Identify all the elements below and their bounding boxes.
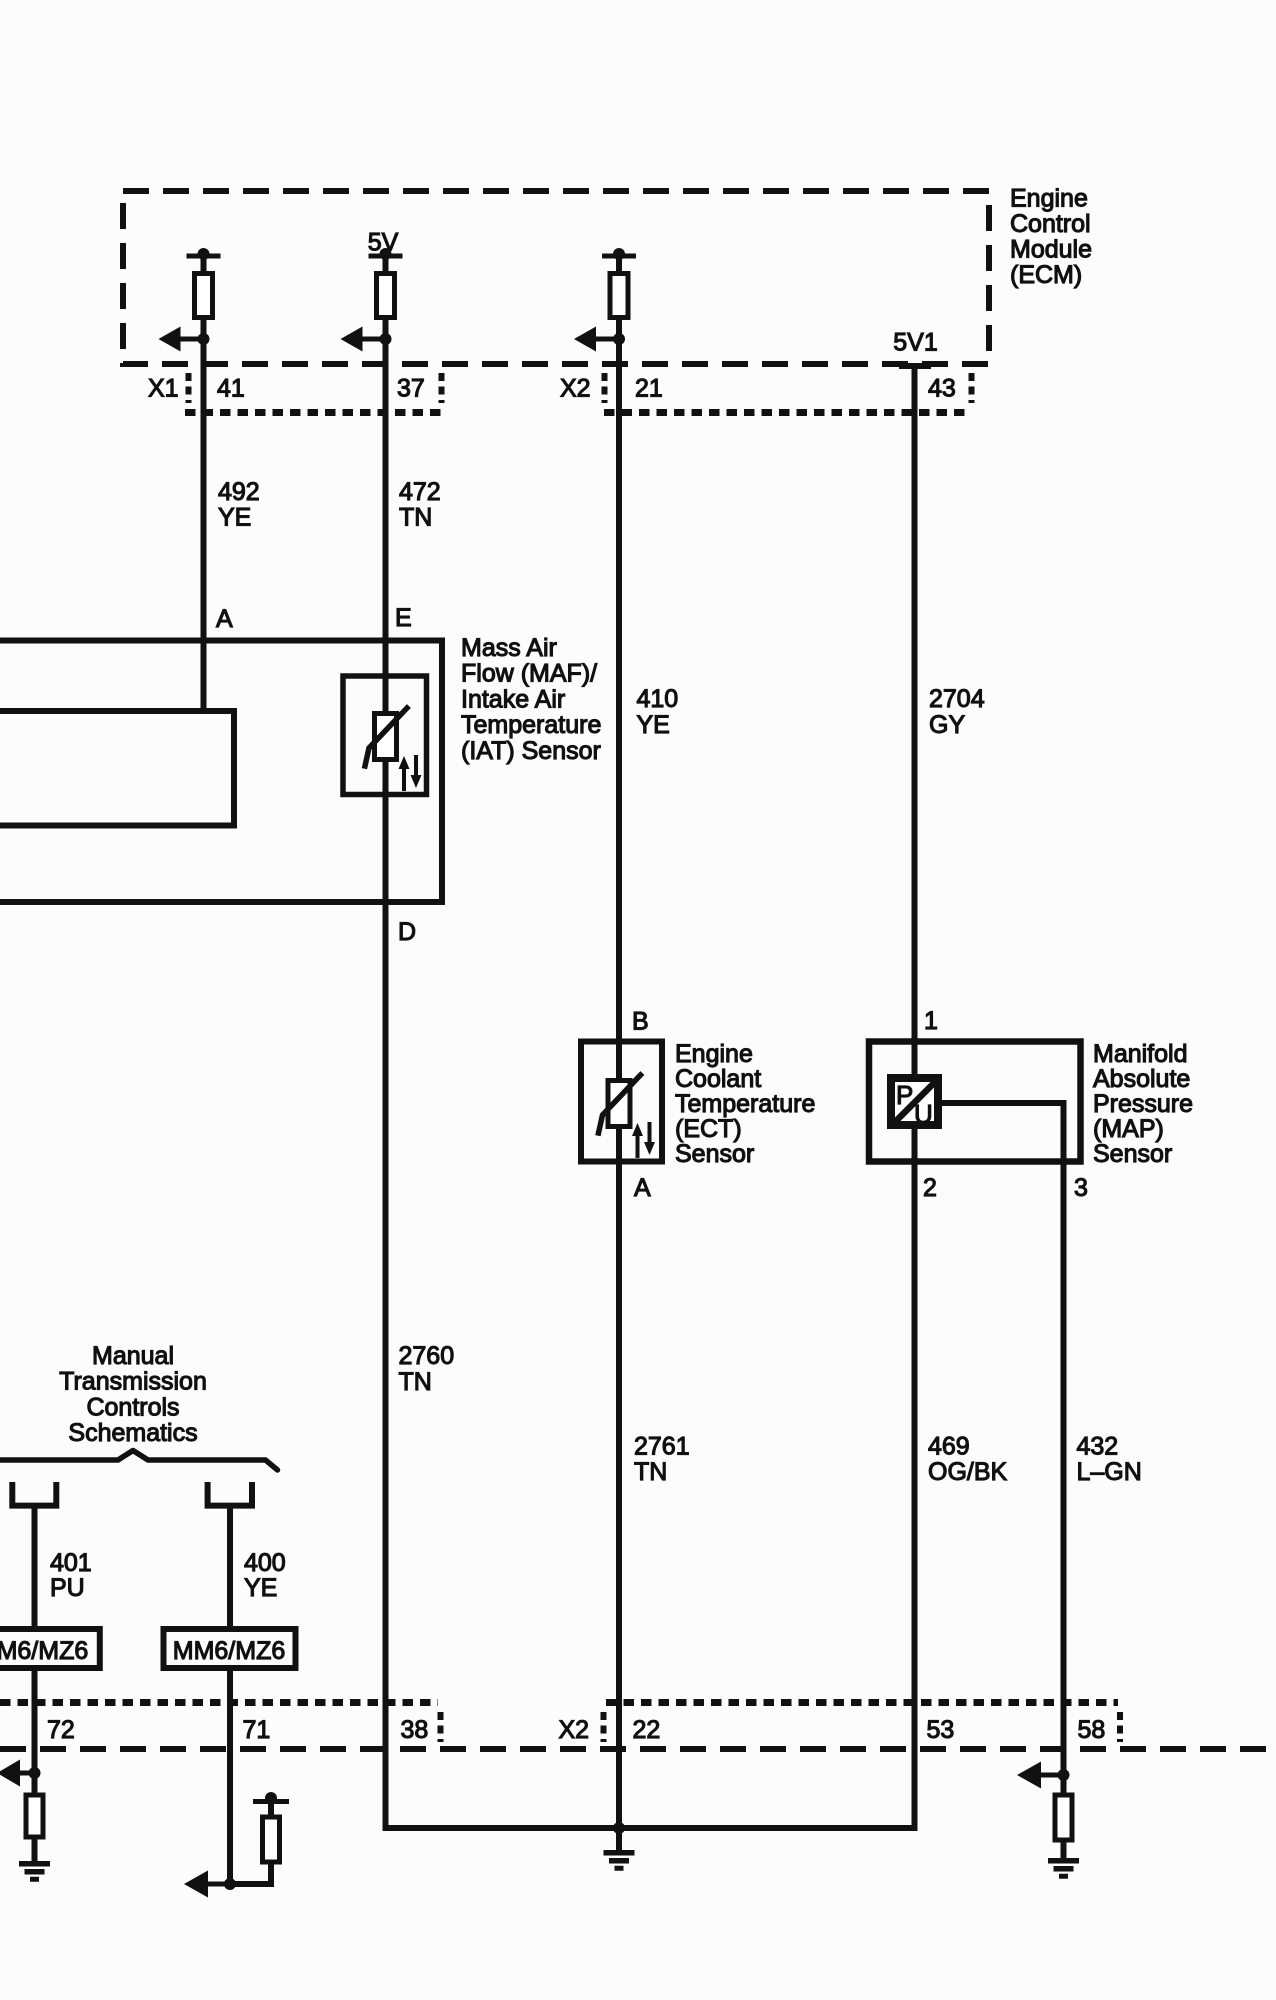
svg-text:P: P xyxy=(896,1080,913,1110)
svg-text:U: U xyxy=(914,1099,933,1129)
svg-text:41: 41 xyxy=(217,375,245,403)
svg-text:43: 43 xyxy=(928,375,956,403)
svg-text:21: 21 xyxy=(635,375,663,403)
svg-text:YE: YE xyxy=(637,711,670,739)
svg-text:5V: 5V xyxy=(368,229,399,257)
svg-text:Temperature: Temperature xyxy=(461,711,601,739)
svg-text:Sensor: Sensor xyxy=(675,1140,754,1168)
svg-text:Engine: Engine xyxy=(1010,185,1088,213)
svg-text:A: A xyxy=(634,1174,651,1202)
svg-text:YE: YE xyxy=(244,1574,277,1602)
svg-text:E: E xyxy=(395,604,412,632)
svg-text:Intake Air: Intake Air xyxy=(461,685,565,713)
svg-text:MM6/MZ6: MM6/MZ6 xyxy=(173,1637,286,1665)
svg-text:(MAP): (MAP) xyxy=(1093,1115,1164,1143)
svg-text:Manifold: Manifold xyxy=(1093,1040,1188,1068)
svg-text:Schematics: Schematics xyxy=(68,1419,197,1447)
svg-text:GY: GY xyxy=(929,711,965,739)
svg-text:YE: YE xyxy=(218,504,251,532)
svg-text:Controls: Controls xyxy=(86,1393,179,1421)
svg-text:2760: 2760 xyxy=(399,1342,455,1370)
svg-text:X2: X2 xyxy=(559,1716,590,1744)
svg-text:Absolute: Absolute xyxy=(1093,1065,1190,1093)
svg-text:TN: TN xyxy=(399,504,432,532)
svg-text:TN: TN xyxy=(399,1368,432,1396)
svg-text:L–GN: L–GN xyxy=(1077,1458,1142,1486)
svg-text:432: 432 xyxy=(1077,1433,1119,1461)
svg-text:D: D xyxy=(398,918,416,946)
svg-text:472: 472 xyxy=(399,478,441,506)
svg-text:TN: TN xyxy=(634,1458,667,1486)
svg-text:2761: 2761 xyxy=(634,1433,690,1461)
svg-text:(IAT) Sensor: (IAT) Sensor xyxy=(461,737,601,765)
svg-text:Manual: Manual xyxy=(92,1342,174,1370)
svg-text:2: 2 xyxy=(923,1174,937,1202)
svg-text:401: 401 xyxy=(50,1549,92,1577)
svg-text:MM6/MZ6: MM6/MZ6 xyxy=(0,1637,88,1665)
svg-text:Transmission: Transmission xyxy=(59,1368,207,1396)
svg-text:58: 58 xyxy=(1078,1716,1106,1744)
svg-text:400: 400 xyxy=(244,1549,286,1577)
svg-text:B: B xyxy=(632,1008,649,1036)
svg-text:1: 1 xyxy=(924,1007,938,1035)
svg-text:OG/BK: OG/BK xyxy=(928,1458,1008,1486)
svg-text:Coolant: Coolant xyxy=(675,1065,761,1093)
svg-text:71: 71 xyxy=(243,1716,271,1744)
svg-text:Pressure: Pressure xyxy=(1093,1090,1193,1118)
svg-text:Control: Control xyxy=(1010,210,1091,238)
svg-text:Module: Module xyxy=(1010,236,1092,264)
svg-text:72: 72 xyxy=(47,1716,75,1744)
svg-text:(ECM): (ECM) xyxy=(1010,261,1082,289)
svg-text:X2: X2 xyxy=(560,375,591,403)
svg-text:Flow (MAF)/: Flow (MAF)/ xyxy=(461,660,597,688)
svg-text:(ECT): (ECT) xyxy=(675,1115,742,1143)
svg-text:A: A xyxy=(216,605,233,633)
svg-text:Sensor: Sensor xyxy=(1093,1140,1172,1168)
svg-text:2704: 2704 xyxy=(929,685,985,713)
svg-text:410: 410 xyxy=(637,685,679,713)
svg-text:38: 38 xyxy=(401,1716,429,1744)
svg-text:3: 3 xyxy=(1074,1174,1088,1202)
svg-text:37: 37 xyxy=(397,375,425,403)
svg-text:Mass Air: Mass Air xyxy=(461,634,557,662)
svg-text:Engine: Engine xyxy=(675,1040,753,1068)
svg-text:5V1: 5V1 xyxy=(893,329,937,357)
svg-text:22: 22 xyxy=(633,1716,661,1744)
svg-text:PU: PU xyxy=(50,1574,85,1602)
svg-text:X1: X1 xyxy=(148,375,179,403)
svg-text:492: 492 xyxy=(218,478,260,506)
svg-text:469: 469 xyxy=(928,1433,970,1461)
svg-text:Temperature: Temperature xyxy=(675,1090,815,1118)
svg-text:53: 53 xyxy=(927,1716,955,1744)
